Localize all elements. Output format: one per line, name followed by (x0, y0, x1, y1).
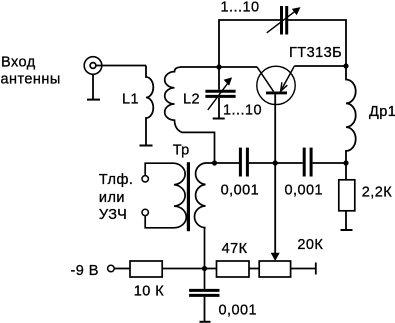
svg-text:2,2К: 2,2К (362, 184, 393, 200)
svg-text:1...10: 1...10 (221, 0, 260, 16)
svg-text:Др1: Др1 (369, 104, 395, 120)
svg-text:-9 В: -9 В (71, 263, 99, 279)
svg-text:антенны: антенны (1, 71, 61, 87)
svg-text:Вход: Вход (1, 54, 36, 70)
svg-text:L2: L2 (183, 92, 200, 108)
svg-text:L1: L1 (122, 92, 139, 108)
svg-text:ГТ313Б: ГТ313Б (289, 45, 342, 61)
svg-text:20К: 20К (297, 237, 323, 253)
svg-text:1...10: 1...10 (223, 103, 262, 119)
svg-text:10 К: 10 К (134, 283, 165, 299)
svg-text:Тр: Тр (173, 142, 190, 158)
svg-text:или: или (99, 190, 125, 206)
svg-text:УЗЧ: УЗЧ (99, 207, 127, 223)
svg-text:0,001: 0,001 (221, 182, 260, 198)
svg-text:0,001: 0,001 (219, 303, 258, 319)
svg-text:Тлф.: Тлф. (99, 172, 133, 188)
svg-text:0,001: 0,001 (285, 182, 324, 198)
svg-text:47К: 47К (222, 241, 248, 257)
